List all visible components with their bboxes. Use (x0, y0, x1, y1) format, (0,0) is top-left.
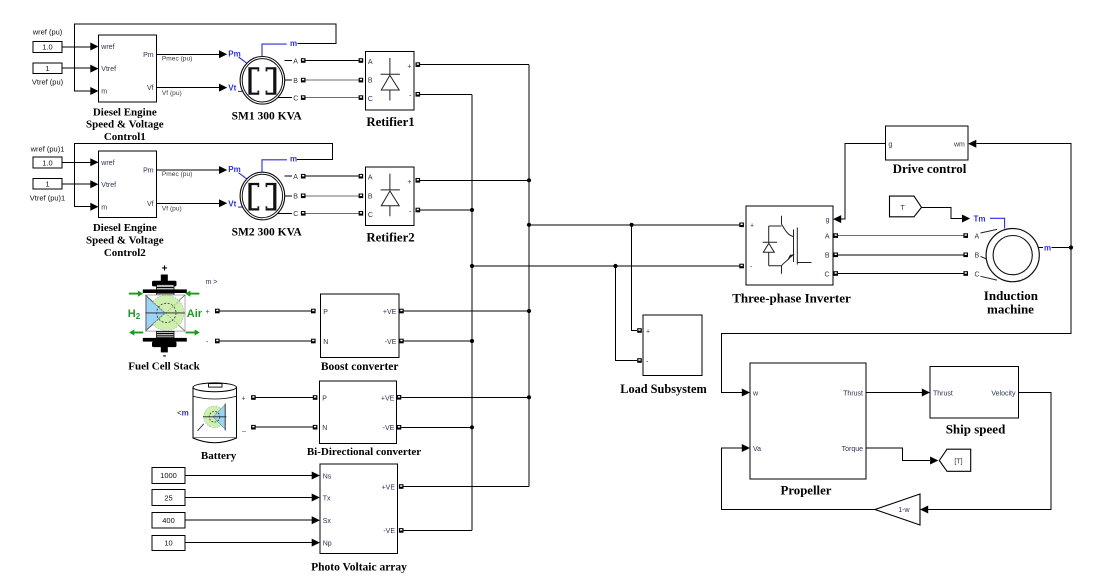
junction negative feed / Load Subsystem (613, 264, 617, 268)
wire Drive control g to inverter gate (833, 144, 886, 223)
svg-text:C: C (293, 211, 298, 218)
svg-text:P: P (322, 395, 327, 402)
wire PV -VE to negative bus (399, 528, 472, 533)
svg-text:m: m (1044, 243, 1051, 252)
label Fuel Cell Stack (128, 361, 200, 373)
svg-text:Pmec (pu): Pmec (pu) (162, 55, 192, 62)
svg-text:Velocity: Velocity (991, 390, 1016, 397)
junction positive feed / Load Subsystem (630, 223, 634, 227)
wire Retifier2 + to DC bus (416, 178, 530, 183)
svg-text:-VE: -VE (385, 339, 397, 346)
wire wm speed feedback to Drive control (722, 140, 1071, 397)
svg-text:Diesel Engine: Diesel Engine (93, 222, 157, 234)
wire gain output to Propeller Va (722, 444, 875, 510)
svg-text:Vf (pu): Vf (pu) (162, 90, 182, 97)
node Vtref (pu) label (32, 78, 64, 87)
wire m feedback loop 2 (75, 143, 333, 210)
svg-text:g: g (826, 217, 830, 224)
wire SM1 phase C to Retifier1 (278, 95, 363, 102)
svg-text:Control2: Control2 (104, 247, 146, 259)
svg-text:Retifier2: Retifier2 (366, 231, 414, 245)
converter Bi-Directional converter (320, 381, 397, 443)
svg-text:Vf: Vf (147, 201, 154, 208)
svg-text:-VE: -VE (383, 425, 395, 432)
svg-text:Speed & Voltage: Speed & Voltage (86, 119, 164, 131)
subsystem Load Subsystem (643, 315, 702, 376)
node Pm blue label SM1 (228, 49, 247, 63)
wire 400 to Sx (185, 516, 320, 524)
goto tag [T] (939, 449, 970, 471)
svg-text:Diesel Engine: Diesel Engine (93, 106, 157, 118)
svg-text:m >: m > (206, 279, 218, 286)
label Photo Voltaic array (311, 562, 407, 574)
junction positive bus / Bi-Directional converter (527, 395, 531, 399)
svg-text:1: 1 (45, 180, 49, 189)
svg-text:400: 400 (162, 516, 175, 525)
subsystem Diesel Engine Speed & Voltage Control2 (99, 151, 157, 218)
junction positive bus / inverter feed (527, 223, 531, 227)
svg-text:+: + (206, 309, 210, 316)
svg-text:w: w (752, 390, 759, 397)
wire Propeller Thrust to Ship speed (866, 389, 930, 397)
svg-text:+: + (407, 64, 411, 71)
wire Bi-Directional -VE to negative bus (397, 425, 472, 430)
node Pm blue label SM2 (228, 165, 247, 179)
svg-text:A: A (825, 233, 830, 240)
wire Velocity feedback to gain 1-w (920, 393, 1051, 514)
wire Retifier1 - to DC bus (416, 92, 473, 97)
wire Fuel Cell - to Boost converter N (206, 339, 316, 346)
label Propeller (781, 483, 832, 497)
wire Boost +VE to positive bus (399, 309, 529, 314)
wire DC negative bus (471, 94, 473, 530)
label Retifier1 (366, 115, 414, 129)
svg-text:Air: Air (187, 308, 203, 320)
junction negative bus / Retifier2 (470, 208, 474, 212)
wire positive feed to Three-phase Inverter (529, 223, 744, 228)
node C label Induction machine (975, 271, 998, 280)
svg-text:Photo Voltaic array: Photo Voltaic array (311, 562, 407, 574)
wire SM2 phase C to Retifier2 (278, 211, 363, 218)
wire m feedback loop 1 (75, 24, 337, 95)
wire const 1.0 to wref input 2 (62, 158, 99, 166)
wire Pm signal 2 (Pmec (pu)) (156, 166, 227, 178)
svg-text:Vtref (pu): Vtref (pu) (32, 78, 64, 87)
svg-text:SM1 300 KVA: SM1 300 KVA (232, 111, 303, 123)
svg-text:Thrust: Thrust (843, 390, 863, 397)
svg-text:Fuel Cell Stack: Fuel Cell Stack (128, 361, 200, 373)
svg-text:Drive control: Drive control (893, 161, 967, 176)
svg-text:+: + (242, 396, 246, 403)
wire Propeller Torque to goto tag (866, 448, 938, 465)
svg-text:Vtref (pu)1: Vtref (pu)1 (30, 193, 65, 202)
wire Retifier2 - to DC bus (416, 208, 473, 213)
svg-text:Pm: Pm (143, 168, 154, 175)
constant 400 (Sx) (152, 513, 185, 528)
svg-text:P: P (323, 309, 328, 316)
label Boost converter (321, 361, 399, 373)
junction positive bus / Boost converter (527, 309, 531, 313)
svg-text:m: m (290, 155, 297, 164)
node Vt blue label SM2 (228, 199, 246, 208)
fuel cell Fuel Cell Stack icon (128, 264, 218, 362)
junction negative bus / inverter feed (470, 264, 474, 268)
wire Battery - to Bi-Directional N (241, 425, 317, 432)
svg-text:B: B (293, 78, 298, 85)
junction positive bus / Retifier2 (527, 178, 531, 182)
junction m measurement / wm feedback (1069, 245, 1073, 249)
svg-text:SM2 300 KVA: SM2 300 KVA (232, 226, 303, 238)
rectifier Retifier1 (366, 51, 415, 110)
svg-text:A: A (368, 175, 373, 182)
svg-text:_: _ (241, 425, 246, 432)
svg-text:+: + (162, 264, 168, 275)
wire inverter phase A to Induction machine (833, 233, 968, 238)
subsystem Drive control (886, 126, 969, 160)
svg-text:1.0: 1.0 (42, 158, 52, 167)
svg-text:Sx: Sx (323, 518, 332, 525)
svg-text:Control1: Control1 (104, 131, 146, 143)
svg-text:B: B (975, 253, 980, 260)
svg-text:C: C (293, 95, 298, 102)
svg-text:Ns: Ns (323, 473, 332, 480)
svg-text:Battery: Battery (201, 450, 237, 462)
machine SM2 300 KVA (240, 172, 285, 220)
wire Pm signal (Pmec (pu)) (156, 50, 227, 62)
svg-text:g: g (888, 142, 892, 149)
svg-text:B: B (368, 193, 373, 200)
svg-text:1.0: 1.0 (42, 43, 52, 52)
label Diesel Engine Speed & Voltage Control1 (86, 106, 164, 143)
svg-text:Propeller: Propeller (781, 483, 832, 497)
junction negative bus / Bi-Directional converter (470, 425, 474, 429)
wire 10 to Np (185, 539, 320, 547)
wire SM2 phase B to Retifier2 (285, 194, 363, 201)
svg-text:A: A (368, 59, 373, 66)
constant 25 (Tx) (152, 490, 185, 506)
constant 1000 (Ns) (152, 468, 185, 484)
wire T to Tm input (922, 207, 971, 222)
gain 1-w (875, 494, 920, 525)
machine SM1 300 KVA (240, 57, 285, 105)
label Induction machine (984, 288, 1039, 317)
svg-text:C: C (368, 96, 373, 103)
label Ship speed (946, 422, 1006, 437)
svg-text:m: m (101, 204, 107, 211)
svg-text:+: + (407, 179, 411, 186)
wire PV +VE to positive bus (399, 484, 529, 489)
svg-text:C: C (824, 271, 829, 278)
svg-text:wref: wref (100, 44, 114, 51)
label Diesel Engine Speed & Voltage Control2 (86, 222, 164, 259)
inverter Three-phase Inverter (746, 206, 833, 285)
wire Vf signal 2 (Vf (pu)) (156, 199, 227, 212)
wire negative drop to Load Subsystem (616, 266, 642, 363)
label Battery (201, 450, 237, 462)
svg-text:+: + (646, 328, 650, 335)
node Vtref (pu)1 label (30, 193, 65, 202)
svg-text:wref (pu)1: wref (pu)1 (30, 144, 65, 153)
svg-text:Vt: Vt (228, 199, 236, 208)
svg-text:Np: Np (323, 540, 332, 547)
rectifier Retifier2 (366, 167, 415, 226)
svg-text:Vtref: Vtref (101, 182, 116, 189)
label Three-phase Inverter (732, 291, 851, 306)
array Photo Voltaic array (320, 464, 398, 554)
svg-text:[T]: [T] (954, 458, 962, 465)
svg-text:1: 1 (45, 64, 49, 73)
svg-text:B: B (825, 253, 830, 260)
wire Battery + to Bi-Directional P (242, 395, 318, 402)
constant 1.0 (speed reference 1) (33, 42, 62, 53)
constant 1 (voltage reference 1) (33, 63, 62, 74)
svg-text:+: + (750, 223, 754, 230)
svg-text:wm: wm (953, 142, 965, 149)
wire SM1 phase A to Retifier1 (284, 58, 363, 65)
wire SM1 phase B to Retifier1 (285, 78, 363, 85)
svg-text:+VE: +VE (383, 309, 397, 316)
svg-text:Speed & Voltage: Speed & Voltage (86, 234, 164, 246)
svg-text:Va: Va (753, 446, 761, 453)
node A label Induction machine (975, 229, 998, 240)
wire inverter phase B to Induction machine (833, 253, 968, 258)
svg-text:Three-phase Inverter: Three-phase Inverter (732, 291, 851, 306)
svg-text:C: C (368, 212, 373, 219)
svg-text:wref: wref (100, 160, 114, 167)
wire Vf signal (Vf (pu)) (156, 84, 227, 97)
label Retifier2 (366, 231, 414, 245)
wire m output SM2 (blue elbow) (262, 155, 297, 172)
wire negative feed to Three-phase Inverter (472, 264, 744, 269)
svg-text:Boost converter: Boost converter (321, 361, 399, 373)
svg-text:+VE: +VE (382, 484, 396, 491)
wire Boost -VE to negative bus (399, 339, 472, 344)
subsystem Ship speed (930, 367, 1019, 418)
node Tm blue label (974, 214, 1005, 228)
svg-text:Thrust: Thrust (933, 390, 953, 397)
wire const 1 to Vtref input (62, 65, 99, 73)
svg-text:A: A (293, 174, 298, 181)
node B label Induction machine (975, 253, 987, 260)
wire const 1.0 to wref input (62, 43, 99, 51)
junction negative bus / Boost converter (470, 339, 474, 343)
svg-text:Pm: Pm (143, 52, 154, 59)
wire 25 to Tx (185, 494, 320, 502)
constant 10 (Np) (152, 535, 185, 550)
svg-text:C: C (975, 271, 980, 278)
label SM1 300 KVA (232, 111, 303, 123)
wire SM2 phase A to Retifier2 (284, 174, 363, 181)
svg-text:Vt: Vt (228, 84, 236, 93)
svg-text:wref (pu): wref (pu) (32, 28, 63, 37)
svg-text:Ship speed: Ship speed (946, 422, 1006, 437)
svg-text:m: m (101, 89, 107, 96)
wire positive drop to Load Subsystem (632, 225, 642, 333)
svg-text:Vtref: Vtref (101, 66, 116, 73)
label Load Subsystem (620, 382, 707, 396)
svg-text:Tm: Tm (974, 214, 986, 223)
svg-text:25: 25 (164, 493, 172, 502)
svg-text:N: N (323, 339, 328, 346)
converter Boost converter (320, 294, 399, 357)
svg-text:Retifier1: Retifier1 (366, 115, 414, 129)
svg-text:10: 10 (164, 539, 172, 548)
wire Bi-Directional +VE to positive bus (397, 395, 529, 400)
svg-text:B: B (293, 194, 298, 201)
svg-text:A: A (293, 58, 298, 65)
svg-text:-VE: -VE (383, 528, 395, 535)
wire Fuel Cell + to Boost converter P (206, 309, 316, 316)
svg-text:<m: <m (177, 409, 189, 418)
svg-text:Induction: Induction (984, 288, 1039, 303)
svg-text:Bi-Directional converter: Bi-Directional converter (307, 446, 421, 458)
wire inverter phase C to Induction machine (833, 271, 968, 276)
svg-text:Pmec (pu): Pmec (pu) (162, 171, 192, 178)
svg-text:B: B (368, 78, 373, 85)
machine Induction machine (986, 229, 1039, 282)
wire DC positive bus (528, 65, 530, 487)
battery Battery icon (177, 383, 237, 443)
subsystem Propeller (750, 363, 866, 479)
svg-text:Tx: Tx (323, 495, 331, 502)
from tag T (890, 196, 922, 217)
label SM2 300 KVA (232, 226, 303, 238)
svg-text:Load Subsystem: Load Subsystem (620, 382, 707, 396)
label Bi-Directional converter (307, 446, 421, 458)
label Drive control (893, 161, 967, 176)
node wref (pu)1 label (30, 144, 65, 153)
svg-text:Vf: Vf (147, 85, 154, 92)
svg-text:+VE: +VE (381, 395, 395, 402)
svg-text:N: N (322, 425, 327, 432)
svg-text:m: m (290, 39, 297, 48)
svg-text:Torque: Torque (842, 446, 864, 453)
wire Retifier1 + to DC bus (416, 62, 530, 67)
svg-text:T: T (901, 205, 906, 212)
constant 1 (voltage reference 2) (33, 179, 62, 190)
wire m output Induction machine (1038, 243, 1071, 252)
svg-text:1000: 1000 (160, 471, 177, 480)
wire 1000 to Ns (185, 472, 320, 480)
node wref (pu) label (32, 28, 63, 37)
constant 1.0 (speed reference 2) (33, 157, 62, 168)
svg-text:machine: machine (987, 302, 1034, 317)
wire m output SM1 (blue elbow) (262, 39, 297, 56)
node Vt blue label SM1 (228, 84, 246, 93)
svg-text:Vf (pu): Vf (pu) (162, 206, 182, 213)
wire const 1 to Vtref input 2 (62, 180, 99, 188)
subsystem Diesel Engine Speed & Voltage Control1 (99, 35, 157, 102)
svg-text:1-w: 1-w (898, 507, 910, 514)
svg-text:A: A (975, 233, 980, 240)
